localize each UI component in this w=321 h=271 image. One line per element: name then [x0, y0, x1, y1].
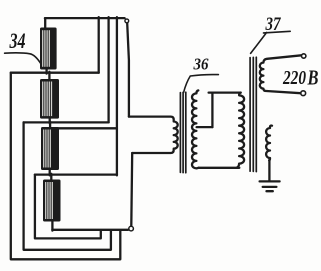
wire rail from top bus to node between lamps 3-4	[116, 17, 118, 175]
ground	[260, 181, 280, 191]
wire from top terminal down to transformer primary	[127, 23, 129, 116]
wire lamp1 top lead	[44, 18, 46, 28]
wire tap riser to 37 primary	[209, 93, 241, 128]
wire lamp2 bottom lead	[49, 118, 51, 124]
wire left outer loop	[11, 73, 121, 260]
svg-text:34: 34	[9, 28, 26, 53]
wire node lamps1-2 horizontal	[11, 72, 99, 74]
wire bottom link 36sec to 37pri	[199, 167, 240, 169]
wire rail from top bus to node between lamps 2-3	[107, 17, 109, 122]
lamp element 1	[40, 28, 57, 70]
wire top bus	[45, 17, 125, 19]
winding 36 primary with leads	[129, 117, 178, 153]
leader line label 36	[184, 75, 219, 93]
terminal top-right of lamp bank	[125, 19, 129, 23]
winding 37 secondary 220V	[260, 55, 302, 93]
wire node lamps3-4 horizontal	[35, 173, 117, 175]
wire rail from top bus to node between lamps 1-2	[98, 17, 100, 72]
wire lamp3 top lead	[49, 122, 51, 128]
svg-text:В: В	[307, 66, 319, 90]
leader line label 34	[5, 53, 42, 64]
terminal bottom of lamp bank	[129, 226, 134, 231]
svg-text:36: 36	[193, 55, 209, 74]
terminal 220V bottom	[301, 91, 306, 96]
wire tertiary to ground	[268, 160, 270, 180]
wire lamp1 bottom lead	[45, 69, 47, 74]
leader line label 37	[251, 31, 291, 53]
lamp element 2	[40, 79, 59, 119]
svg-text:220: 220	[282, 67, 306, 89]
wire node lamps2-3 horizontal	[24, 121, 109, 123]
core of transformer 36	[180, 92, 185, 173]
wire lamp3 top to rail	[44, 127, 117, 129]
winding 37 primary	[237, 93, 244, 168]
wire left inner loop	[35, 175, 101, 239]
wire tap of secondary 36	[197, 126, 213, 128]
winding 37 grounded tertiary	[266, 126, 272, 161]
wire lamp4 top lead	[50, 174, 52, 181]
terminal 220V top	[302, 54, 306, 58]
wire lamp2 top lead	[48, 72, 50, 80]
wire bottom bus to terminal	[52, 229, 128, 231]
wire from primary bottom down to bottom terminal	[130, 153, 133, 226]
winding 36 secondary	[192, 90, 199, 168]
lamp element 3	[41, 127, 59, 170]
wire left middle loop	[24, 122, 111, 249]
wire lamp3 bottom lead	[49, 169, 51, 175]
wire lamp4 bottom lead	[51, 221, 53, 231]
core of transformer 37	[250, 57, 256, 171]
lamp element 4	[43, 180, 61, 222]
